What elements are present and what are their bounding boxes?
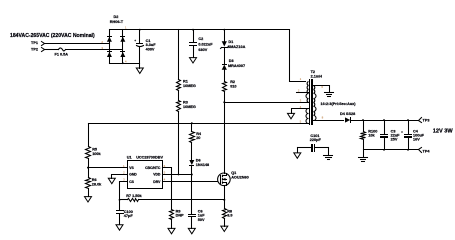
svg-text:VS: VS <box>129 166 134 170</box>
resistor R2 <box>223 80 237 92</box>
capacitor C3 <box>380 121 400 150</box>
svg-text:0.022uF: 0.022uF <box>198 43 213 47</box>
ground below R6 <box>85 189 92 203</box>
test point TP1 <box>31 41 45 45</box>
transformer primary winding <box>306 82 309 103</box>
test point TP4 <box>419 148 431 154</box>
wire D1 to D3 <box>224 48 226 65</box>
wire TP2 to fuse <box>45 49 59 51</box>
capacitor C2 <box>189 30 213 58</box>
transformer pin numbers <box>298 77 324 123</box>
capacitor C1 <box>134 30 156 64</box>
svg-text:50V: 50V <box>198 218 205 222</box>
test point TP2 <box>31 47 45 51</box>
wire DRV to Q1 gate <box>163 181 218 183</box>
svg-text:220pF: 220pF <box>310 138 322 142</box>
svg-text:16:2:3(Pri:Sec:Aux): 16:2:3(Pri:Sec:Aux) <box>321 102 357 106</box>
resistor R5 <box>86 147 102 159</box>
earth ground secondary top <box>325 93 334 97</box>
resistor R3 <box>177 100 196 111</box>
op-amp/controller U1 UCC28700DBV box <box>127 156 164 189</box>
wire D3 to R2 <box>224 70 226 82</box>
wire R4 to D6 <box>191 143 193 161</box>
wire fuse to bridge <box>66 49 123 51</box>
ground (primary) C101 left <box>294 148 301 159</box>
wire GND pin <box>112 175 128 179</box>
transformer T2 core <box>309 70 322 125</box>
svg-text:MRA4007: MRA4007 <box>228 64 245 68</box>
resistor R8 <box>223 200 233 219</box>
transformer secondary winding <box>314 86 317 121</box>
svg-text:2.1mH: 2.1mH <box>311 74 323 78</box>
resistor R6 <box>86 178 103 189</box>
earth ground C101 right <box>324 148 333 160</box>
svg-text:47pF: 47pF <box>124 214 134 218</box>
bridge pin numbers <box>101 26 127 64</box>
fuse F1 <box>55 48 69 56</box>
wire aux top to ground <box>292 109 309 114</box>
bridge right leg wire <box>122 30 124 64</box>
wire aux to R5 <box>88 124 90 147</box>
svg-text:910: 910 <box>230 85 236 89</box>
svg-text:630V: 630V <box>198 48 207 52</box>
svg-text:F1 0.5A: F1 0.5A <box>55 52 69 56</box>
resistor R100 <box>361 121 378 150</box>
ground below C2 <box>190 58 197 63</box>
wire R3 down to VDD line <box>178 112 180 175</box>
svg-text:R7 1.50k: R7 1.50k <box>126 194 142 198</box>
ground below R8 <box>221 219 228 232</box>
bridge diode lower-left <box>107 51 112 57</box>
svg-text:VDD: VDD <box>153 173 161 177</box>
ground (primary) below C1 <box>136 64 143 74</box>
wire VS node to IC <box>89 167 128 169</box>
svg-text:3.9: 3.9 <box>227 214 232 218</box>
wire rail to R1 <box>178 30 180 80</box>
svg-text:184VAC-265VAC (220VAC Nominal): 184VAC-265VAC (220VAC Nominal) <box>10 33 95 39</box>
ground below C6 <box>188 228 195 233</box>
svg-text:UCC28700DBV: UCC28700DBV <box>136 156 163 160</box>
earth ground output return <box>359 150 368 162</box>
bridge diode upper-left <box>107 36 112 42</box>
resistor R9 <box>170 209 185 219</box>
bridge left leg wire <box>109 30 111 64</box>
bridge diode lower-right <box>120 51 125 57</box>
ground below R9 <box>168 220 175 234</box>
wire CS pin down <box>120 182 128 200</box>
svg-text:R1: R1 <box>183 80 188 84</box>
transformer aux winding <box>306 109 309 124</box>
svg-text:12V 3W: 12V 3W <box>433 128 454 134</box>
svg-text:R2: R2 <box>230 80 235 84</box>
ground at U1 GND <box>108 178 115 183</box>
svg-text:100k: 100k <box>92 152 101 156</box>
U1 pin numbers <box>123 164 166 182</box>
wire rail to primary top <box>290 30 306 82</box>
svg-text:Q1: Q1 <box>231 171 236 175</box>
wire output return rail <box>364 149 419 151</box>
svg-text:D3: D3 <box>229 59 234 63</box>
svg-text:400V: 400V <box>146 48 155 52</box>
wire R7 to sense node <box>139 199 225 201</box>
svg-text:TP2: TP2 <box>31 47 38 51</box>
wire secondary top <box>314 86 330 93</box>
svg-text:28.0k: 28.0k <box>92 182 102 186</box>
resistor R1 <box>177 80 196 91</box>
svg-text:U1: U1 <box>127 156 132 160</box>
capacitor C100 <box>116 200 133 225</box>
diode D6 <box>189 159 209 167</box>
svg-text:DNP: DNP <box>176 214 184 218</box>
svg-text:CS: CS <box>129 180 134 184</box>
svg-text:10MEG: 10MEG <box>183 84 196 88</box>
wire aux to R4 <box>191 124 193 132</box>
capacitor C101 <box>298 134 329 152</box>
svg-text:D4 SS28: D4 SS28 <box>340 112 355 116</box>
ground (primary) aux top <box>288 113 295 118</box>
junction dots <box>139 29 141 31</box>
svg-text:16V: 16V <box>413 137 420 141</box>
wire R1 to R3 <box>178 91 180 101</box>
junction drain node <box>223 101 225 103</box>
svg-text:D2: D2 <box>114 15 119 19</box>
wire VDD pin to D6 column <box>163 174 192 176</box>
resistor R4 <box>190 132 202 143</box>
svg-text:AOU2N60: AOU2N60 <box>231 176 249 180</box>
diode D3 <box>222 59 245 70</box>
svg-text:10MEG: 10MEG <box>183 105 196 109</box>
ground below C100 <box>116 225 123 230</box>
bridge rectifier D2 label <box>110 15 124 24</box>
wire Q1 source to R8 node <box>224 186 226 200</box>
svg-text:GND: GND <box>129 173 137 177</box>
resistor R7 <box>120 194 143 202</box>
zener diode D1 <box>221 30 246 50</box>
transistor Q1 <box>218 171 249 186</box>
svg-text:3.3uF: 3.3uF <box>146 43 157 47</box>
wire secondary bottom to D4 <box>314 120 344 122</box>
svg-text:CBC/NTC: CBC/NTC <box>145 166 161 170</box>
svg-text:C1: C1 <box>146 39 151 43</box>
svg-text:TP1: TP1 <box>31 41 38 45</box>
wire R2 to drain node <box>224 92 226 174</box>
wire TP1 to bridge <box>45 43 110 45</box>
bridge bottom wire <box>110 63 140 65</box>
capacitor C4 <box>401 121 425 150</box>
diode D4 <box>340 112 355 123</box>
wire R5 to R6 <box>88 159 90 178</box>
wire CBC pin to R9 column <box>163 168 172 210</box>
wire aux bottom long run <box>89 123 309 125</box>
wire primary bottom to drain column <box>225 102 309 104</box>
bridge diode upper-right <box>120 36 125 42</box>
svg-text:25V: 25V <box>391 137 398 141</box>
wire D6 to VDD line and down to C6 <box>191 166 193 214</box>
wire DC+ top rail <box>110 29 290 31</box>
svg-text:DRV: DRV <box>153 180 161 184</box>
svg-text:TP3: TP3 <box>423 119 430 123</box>
svg-text:TP4: TP4 <box>423 150 431 154</box>
svg-text:20: 20 <box>196 136 200 140</box>
svg-text:10k: 10k <box>368 133 375 137</box>
svg-text:RH06-T: RH06-T <box>110 20 124 24</box>
transformer NC stub pin 2 <box>297 92 309 94</box>
wire D4 to TP3 <box>352 120 419 122</box>
svg-text:D1: D1 <box>228 40 233 44</box>
test point TP3 <box>419 118 430 123</box>
capacitor C6 <box>188 209 205 228</box>
svg-text:SMAZ10A: SMAZ10A <box>228 45 246 49</box>
svg-text:C2: C2 <box>198 37 203 41</box>
svg-text:R3: R3 <box>183 100 188 104</box>
svg-text:1N4148: 1N4148 <box>196 163 209 167</box>
